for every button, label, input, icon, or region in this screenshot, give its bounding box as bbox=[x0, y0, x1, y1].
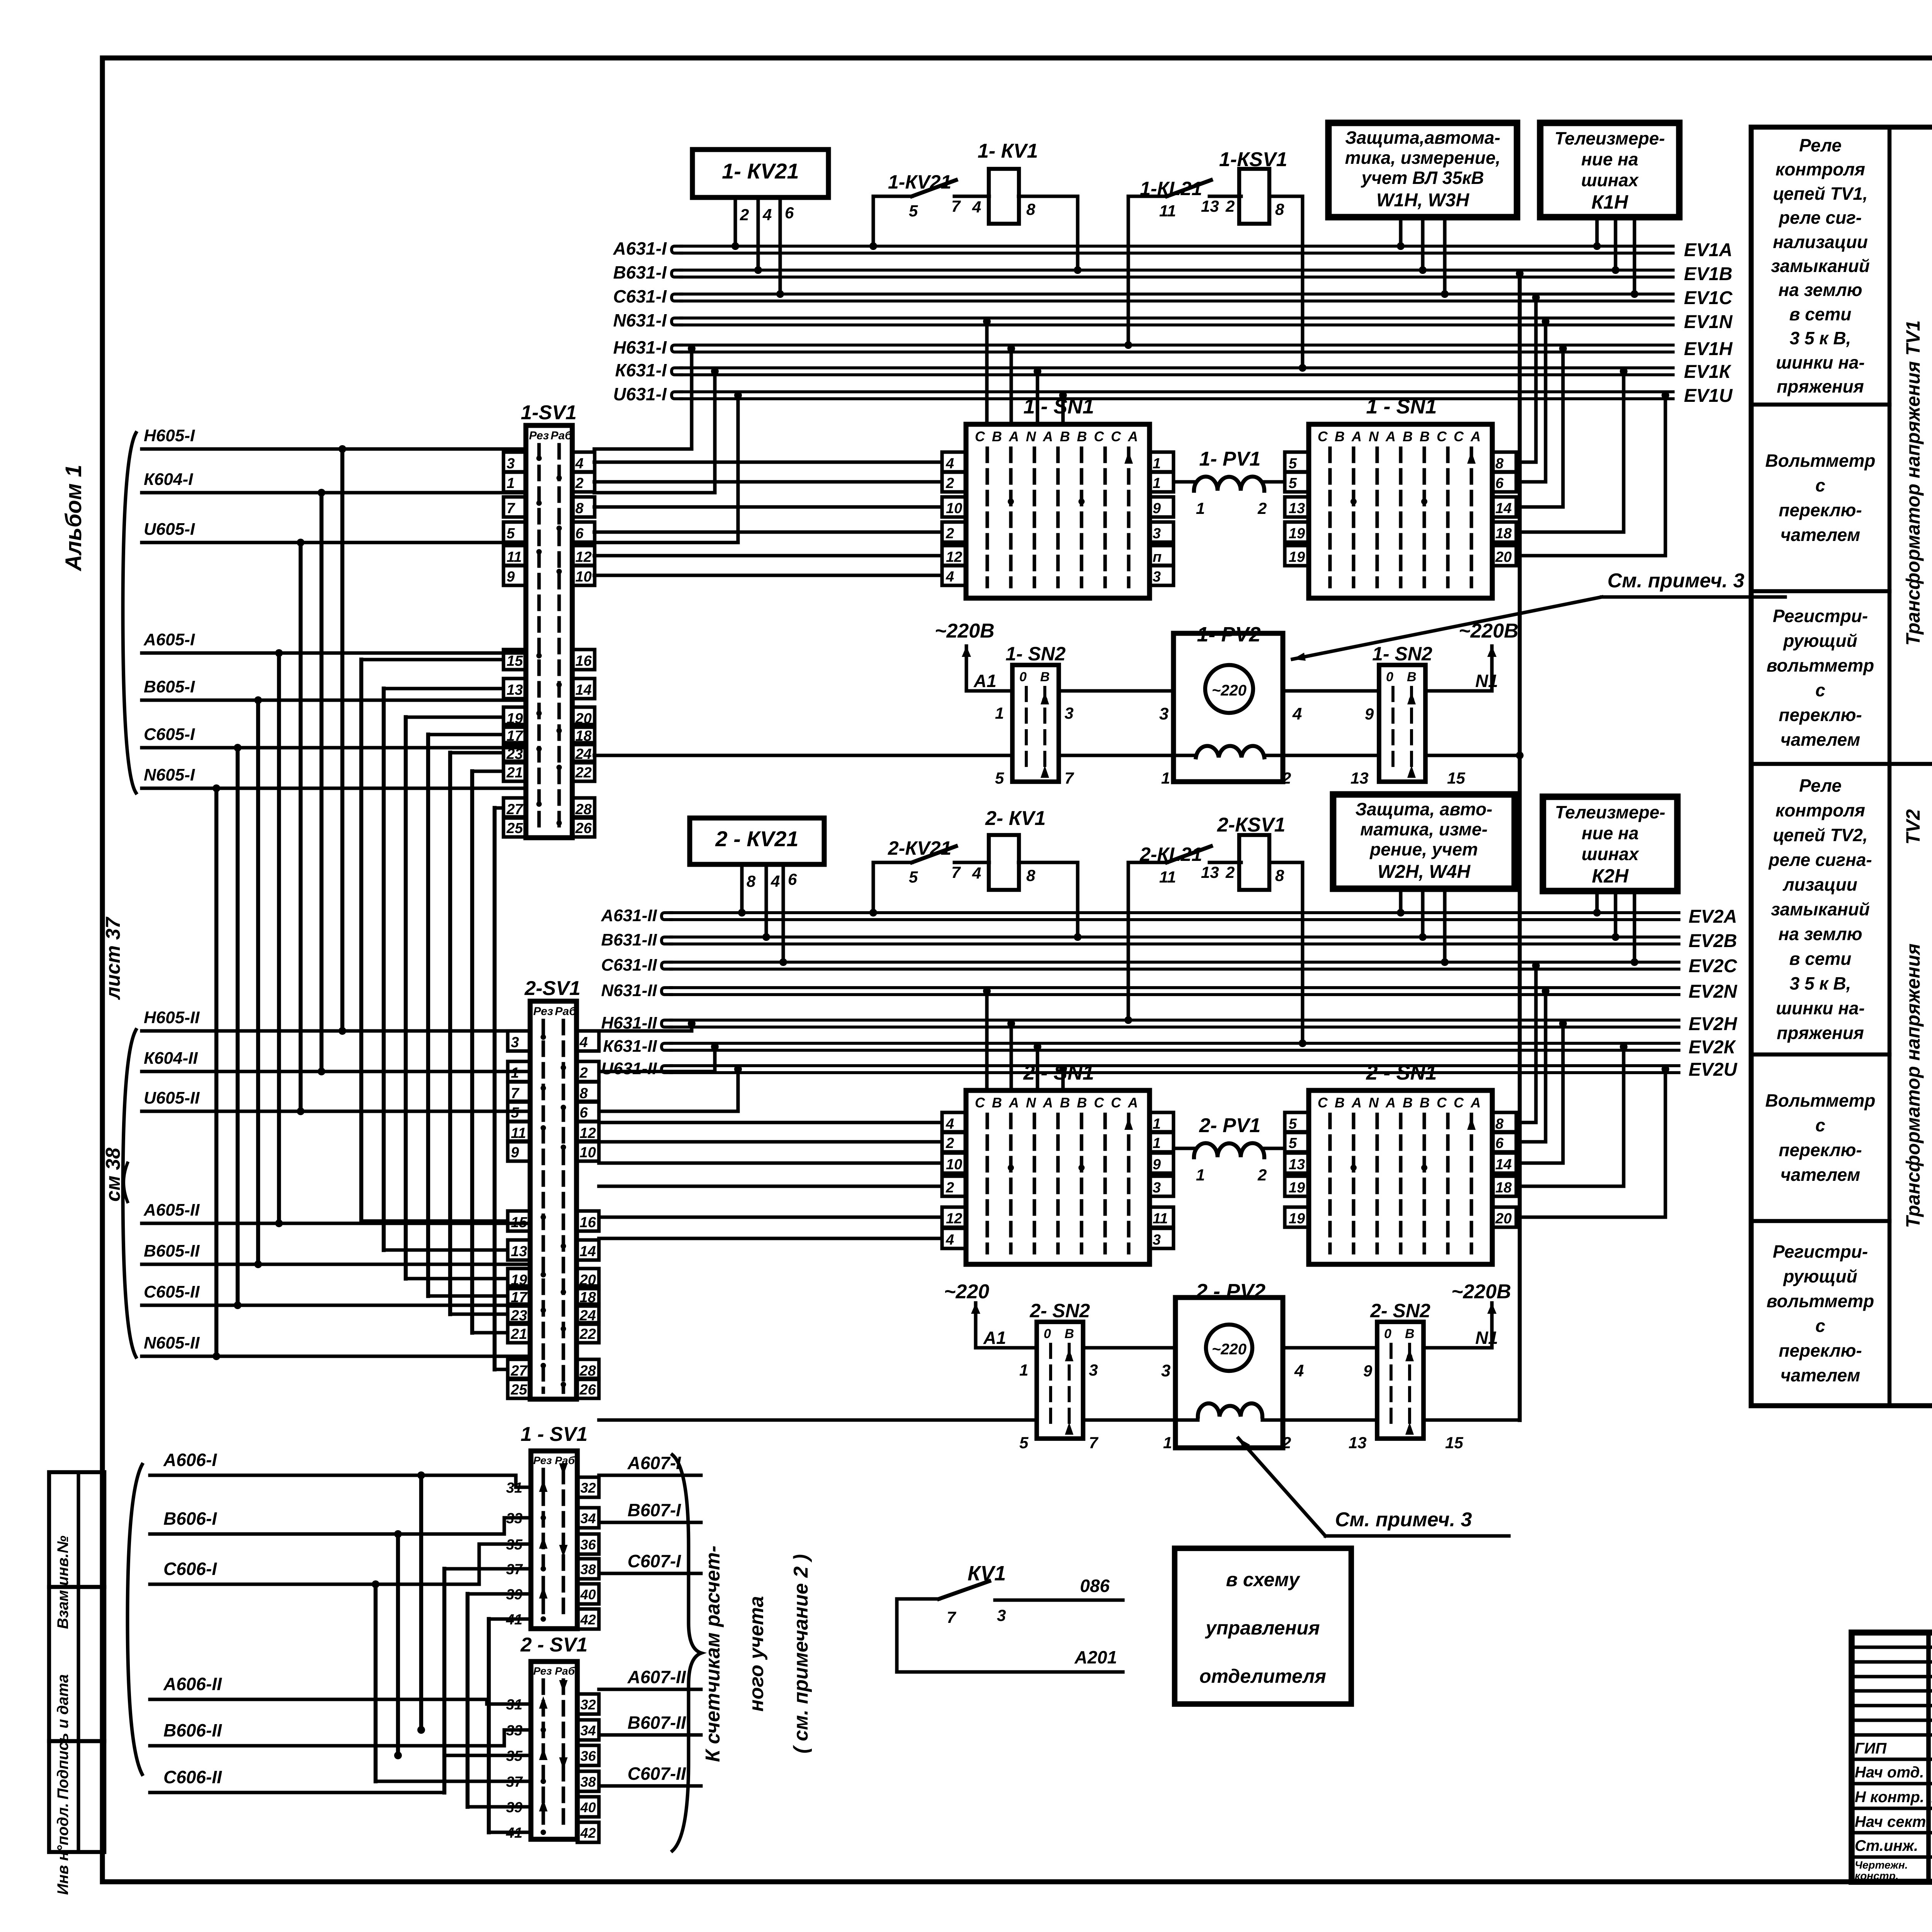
svg-text:2: 2 bbox=[946, 1135, 954, 1151]
svg-text:Трансформатор напряжения ТV: Трансформатор напряжения ТV1 bbox=[1902, 320, 1924, 646]
svg-text:1-SV1: 1-SV1 bbox=[521, 401, 577, 424]
bus С631-I bbox=[672, 294, 682, 301]
wire 1-SV1 to 1-SN1 bbox=[594, 460, 941, 464]
svg-text:ЕV2U: ЕV2U bbox=[1689, 1060, 1738, 1080]
svg-text:с: с bbox=[1815, 1316, 1825, 1336]
pin 25 of 1-SV1 bbox=[503, 817, 526, 837]
svg-text:с: с bbox=[1815, 475, 1825, 495]
svg-text:переклю-: переклю- bbox=[1779, 705, 1862, 725]
pin 27 of 1-SV1 bbox=[503, 798, 526, 818]
svg-text:Рез: Рез bbox=[529, 429, 549, 442]
svg-text:2-SV1: 2-SV1 bbox=[524, 977, 581, 1000]
svg-text:2 - SN1: 2 - SN1 bbox=[1023, 1061, 1094, 1084]
svg-text:11: 11 bbox=[1153, 1211, 1168, 1227]
svg-text:13: 13 bbox=[1201, 197, 1219, 215]
wire 2-SN1 pin 18 to bus К631-II bbox=[1516, 1050, 1624, 1186]
svg-text:Защита,автома-: Защита,автома- bbox=[1345, 128, 1500, 148]
pin 12 of 1 - SN1 bbox=[942, 546, 966, 566]
svg-text:4: 4 bbox=[946, 569, 954, 585]
svg-text:8: 8 bbox=[1495, 1116, 1504, 1132]
bus В631-I bbox=[672, 270, 682, 277]
svg-text:4: 4 bbox=[946, 1116, 954, 1132]
svg-text:6: 6 bbox=[788, 870, 797, 888]
svg-text:рующий: рующий bbox=[1782, 1266, 1857, 1286]
svg-text:на землю: на землю bbox=[1778, 924, 1862, 944]
function box Телеизмерение К2Н bbox=[1543, 797, 1677, 891]
svg-text:В606-I: В606-I bbox=[163, 1509, 217, 1529]
svg-text:вольтметр: вольтметр bbox=[1767, 655, 1874, 675]
wire riser bundle bbox=[299, 543, 303, 1111]
svg-text:3: 3 bbox=[1159, 704, 1168, 723]
pin 1 of 1-SV1 bbox=[503, 472, 526, 492]
svg-text:рение, учет: рение, учет bbox=[1369, 839, 1478, 859]
svg-text:13: 13 bbox=[1350, 769, 1369, 787]
wire riser 1 bbox=[359, 660, 363, 1221]
svg-text:N1: N1 bbox=[1475, 671, 1498, 691]
svg-text:2- SN2: 2- SN2 bbox=[1029, 1300, 1090, 1321]
svg-text:В: В bbox=[1077, 429, 1087, 444]
pin 4 of 2 - SN1 bbox=[942, 1228, 966, 1248]
pin 24 of 2-SV1 bbox=[577, 1304, 599, 1324]
svg-text:В: В bbox=[1403, 429, 1413, 444]
pin 5 of 2 - SN1 bbox=[1285, 1132, 1309, 1152]
wire bus N631-I to 1-SN1 pin 6 bbox=[1516, 325, 1546, 482]
pin 2 of 2-SV1 bbox=[577, 1061, 599, 1082]
svg-text:В: В bbox=[992, 1095, 1002, 1111]
svg-text:12: 12 bbox=[575, 549, 592, 565]
svg-text:А: А bbox=[1128, 429, 1138, 444]
svg-text:2- РV1: 2- РV1 bbox=[1199, 1114, 1261, 1137]
svg-text:переклю-: переклю- bbox=[1779, 1140, 1862, 1160]
svg-text:1- SN2: 1- SN2 bbox=[1005, 643, 1066, 665]
wire H605-I to bus Н631-I bbox=[594, 447, 692, 451]
svg-text:чателем: чателем bbox=[1781, 730, 1860, 750]
pin 27 of 2-SV1 bbox=[508, 1359, 530, 1379]
stub bbox=[1399, 217, 1402, 246]
svg-text:1-КV21: 1-КV21 bbox=[888, 171, 951, 193]
svg-text:реле сиг-: реле сиг- bbox=[1778, 207, 1862, 228]
pin 18 of 1 - SN1 bbox=[1492, 522, 1516, 542]
svg-text:13: 13 bbox=[1289, 1156, 1305, 1173]
svg-text:А605-I: А605-I bbox=[143, 630, 195, 649]
pin 13 of 1-SV1 bbox=[503, 679, 526, 699]
pin 20 of 2 - SN1 bbox=[1492, 1207, 1516, 1227]
svg-text:21: 21 bbox=[506, 765, 523, 781]
stub bbox=[1614, 217, 1617, 270]
bus Н631-II bbox=[662, 1020, 672, 1027]
svg-text:В607-II: В607-II bbox=[628, 1713, 686, 1733]
wire bbox=[966, 689, 1012, 692]
svg-text:1 - SN1: 1 - SN1 bbox=[1023, 395, 1094, 418]
pin 2 of 1-SV1 bbox=[572, 472, 595, 492]
pin 25 of 2-SV1 bbox=[508, 1378, 530, 1398]
pin 14 of 1-SV1 bbox=[572, 679, 595, 699]
wire 1-SV1 to 1-SN1 bbox=[594, 573, 941, 577]
annotation table (middle) bbox=[1751, 127, 1932, 1406]
svg-text:6: 6 bbox=[1495, 1135, 1504, 1151]
svg-text:0: 0 bbox=[1044, 1327, 1051, 1341]
svg-text:38: 38 bbox=[580, 1774, 596, 1790]
svg-text:К1Н: К1Н bbox=[1592, 191, 1629, 213]
svg-text:Взам инв.№: Взам инв.№ bbox=[54, 1536, 71, 1629]
stub bbox=[1595, 891, 1599, 913]
svg-text:N631-II: N631-II bbox=[601, 981, 657, 1000]
svg-text:в схему: в схему bbox=[1226, 1569, 1301, 1590]
svg-text:В: В bbox=[1065, 1327, 1074, 1341]
supply arrow bbox=[974, 1303, 977, 1348]
svg-text:В607-I: В607-I bbox=[628, 1500, 681, 1520]
svg-text:шинах: шинах bbox=[1582, 844, 1639, 864]
bottom wire of 1-SN2 row bbox=[594, 753, 1012, 757]
bus Н631-I bbox=[672, 345, 682, 352]
svg-text:С: С bbox=[1111, 429, 1121, 444]
pin 1 of 1 - SN1 bbox=[1150, 452, 1173, 472]
stub bbox=[1595, 217, 1599, 246]
svg-text:вольтметр: вольтметр bbox=[1767, 1291, 1874, 1311]
svg-text:10: 10 bbox=[946, 1156, 962, 1173]
svg-text:В631-I: В631-I bbox=[613, 262, 667, 282]
svg-text:Защита, авто-: Защита, авто- bbox=[1355, 799, 1493, 819]
bus U631-I bbox=[672, 392, 682, 399]
svg-text:34: 34 bbox=[580, 1723, 596, 1738]
svg-text:N1: N1 bbox=[1475, 1328, 1498, 1348]
svg-text:15: 15 bbox=[507, 653, 523, 669]
svg-text:1- КV1: 1- КV1 bbox=[978, 140, 1038, 162]
wire bbox=[1083, 1346, 1175, 1349]
wire bbox=[1019, 194, 1078, 198]
bus В631-II bbox=[662, 937, 672, 944]
svg-text:1: 1 bbox=[1153, 456, 1161, 472]
svg-text:цепей ТV1,: цепей ТV1, bbox=[1773, 184, 1867, 204]
wire bbox=[1019, 861, 1078, 864]
svg-text:2-КV21: 2-КV21 bbox=[888, 837, 951, 859]
stamp box Инв №подл bbox=[49, 1741, 104, 1852]
wire bus Н631-I to 1-SN1 pin 14 bbox=[1516, 352, 1563, 507]
wire C606-II bbox=[270, 1755, 531, 1793]
svg-text:пряжения: пряжения bbox=[1777, 1023, 1864, 1043]
svg-text:А: А bbox=[1351, 429, 1362, 444]
svg-text:1- КV21: 1- КV21 bbox=[722, 159, 799, 183]
stamp box Подпись и дата bbox=[49, 1587, 104, 1741]
svg-text:шинах: шинах bbox=[1581, 170, 1639, 190]
pin 8 stub bbox=[740, 864, 743, 913]
svg-text:см 38: см 38 bbox=[102, 1148, 124, 1202]
svg-text:~220В: ~220В bbox=[1451, 1281, 1511, 1303]
pin 4 stub bbox=[756, 197, 760, 270]
svg-text:~220: ~220 bbox=[1212, 1341, 1247, 1358]
svg-text:В: В bbox=[992, 429, 1002, 444]
cable bundle bracket 606 bbox=[128, 1464, 142, 1774]
svg-text:8: 8 bbox=[747, 872, 756, 890]
wire B606-II bbox=[270, 1730, 531, 1746]
svg-text:10: 10 bbox=[946, 500, 962, 517]
svg-text:А: А bbox=[1128, 1095, 1138, 1111]
svg-text:N: N bbox=[1026, 429, 1036, 444]
crossover riser 5 bbox=[466, 1594, 469, 1807]
svg-text:7: 7 bbox=[947, 1608, 956, 1626]
pin 11 of 2 - SN1 bbox=[1150, 1207, 1173, 1227]
sheet frame bbox=[102, 56, 1932, 61]
pin 23 of 1-SV1 bbox=[503, 743, 526, 763]
svg-text:Реле: Реле bbox=[1799, 776, 1842, 796]
pin 6 of 2-SV1 bbox=[577, 1101, 599, 1121]
pin 6 stub bbox=[778, 197, 782, 294]
pin 12 of 2-SV1 bbox=[577, 1122, 599, 1142]
pin 28 of 2-SV1 bbox=[577, 1359, 599, 1379]
svg-text:А: А bbox=[1043, 1095, 1053, 1111]
svg-text:Рез: Рез bbox=[533, 1665, 552, 1677]
svg-text:управления: управления bbox=[1204, 1617, 1320, 1639]
pin 8 of 2 - SN1 bbox=[1492, 1112, 1516, 1133]
pin 24 of 1-SV1 bbox=[572, 743, 595, 763]
pin 14 of 1 - SN1 bbox=[1492, 497, 1516, 517]
wire bus N631-II to 2-SN1 pin 6 bbox=[1516, 995, 1546, 1142]
bottom wire of 2-SN2 row bbox=[599, 1418, 1037, 1422]
svg-text:Регистри-: Регистри- bbox=[1773, 606, 1868, 626]
wire riser bundle bbox=[256, 700, 260, 1264]
svg-text:N605-II: N605-II bbox=[144, 1333, 200, 1352]
svg-text:ЕV1С: ЕV1С bbox=[1684, 288, 1733, 308]
svg-text:6: 6 bbox=[575, 526, 584, 542]
svg-text:С605-I: С605-I bbox=[144, 725, 195, 744]
svg-text:5: 5 bbox=[1289, 1116, 1297, 1132]
svg-text:С: С bbox=[975, 1095, 985, 1111]
pin 19 of 2-SV1 bbox=[508, 1269, 530, 1289]
svg-text:В: В bbox=[1407, 670, 1417, 684]
stub bbox=[1421, 217, 1424, 270]
svg-text:С606-I: С606-I bbox=[163, 1559, 217, 1579]
svg-text:См. примеч. 3: См. примеч. 3 bbox=[1607, 570, 1745, 592]
pin 2 stub bbox=[733, 197, 737, 246]
wire bus С631-II to 2-SN1 pin 8 bbox=[1516, 969, 1536, 1122]
svg-text:3: 3 bbox=[1161, 1361, 1170, 1380]
svg-text:4: 4 bbox=[946, 456, 954, 472]
svg-text:Телеизмере-: Телеизмере- bbox=[1554, 128, 1665, 148]
wire riser bundle bbox=[340, 449, 344, 1031]
svg-text:К2Н: К2Н bbox=[1592, 865, 1629, 887]
pin 4 stub bbox=[764, 864, 768, 937]
svg-text:ЕV2С: ЕV2С bbox=[1689, 956, 1738, 976]
pin 13 of 1 - SN1 bbox=[1285, 497, 1309, 517]
svg-text:( см. примечание 2 ): ( см. примечание 2 ) bbox=[790, 1554, 812, 1753]
svg-text:С: С bbox=[1111, 1095, 1121, 1111]
svg-text:С: С bbox=[1437, 1095, 1447, 1111]
svg-text:1: 1 bbox=[1153, 1135, 1161, 1151]
pin 23 of 2-SV1 bbox=[508, 1304, 530, 1324]
svg-text:38: 38 bbox=[580, 1561, 596, 1577]
svg-text:Н605-I: Н605-I bbox=[144, 426, 195, 445]
svg-text:Н631-I: Н631-I bbox=[613, 337, 667, 357]
svg-text:учет ВЛ 35кВ: учет ВЛ 35кВ bbox=[1361, 168, 1484, 188]
pin 17 of 1-SV1 bbox=[503, 724, 526, 745]
title block bbox=[1852, 1633, 1932, 1882]
svg-text:А607-II: А607-II bbox=[627, 1667, 686, 1687]
svg-text:2 - SV1: 2 - SV1 bbox=[520, 1634, 587, 1656]
svg-text:ЕV1А: ЕV1А bbox=[1684, 240, 1732, 260]
stub bbox=[1633, 217, 1636, 294]
svg-text:32: 32 bbox=[580, 1480, 596, 1496]
svg-text:4: 4 bbox=[1294, 1361, 1304, 1380]
svg-text:11: 11 bbox=[511, 1125, 526, 1141]
svg-text:А606-I: А606-I bbox=[163, 1450, 217, 1470]
svg-text:В: В bbox=[1060, 1095, 1070, 1111]
svg-text:С: С bbox=[1437, 429, 1447, 444]
svg-text:9: 9 bbox=[1365, 705, 1374, 723]
svg-text:ЕV1К: ЕV1К bbox=[1684, 362, 1732, 382]
wire 1-SV1 to 1-SN1 bbox=[594, 530, 941, 534]
bus А631-II bbox=[662, 913, 672, 920]
wire bbox=[1059, 689, 1173, 692]
svg-text:В: В bbox=[1420, 429, 1430, 444]
svg-text:Регистри-: Регистри- bbox=[1773, 1242, 1868, 1262]
svg-text:1- SN2: 1- SN2 bbox=[1372, 643, 1432, 665]
function box Защита автоматика W1H W3H bbox=[1328, 123, 1517, 217]
svg-text:ТV2: ТV2 bbox=[1902, 809, 1924, 845]
svg-text:С: С bbox=[1094, 429, 1104, 444]
svg-text:ЕV1N: ЕV1N bbox=[1684, 312, 1733, 332]
svg-text:26: 26 bbox=[575, 820, 592, 837]
svg-text:ЕV2К: ЕV2К bbox=[1689, 1037, 1736, 1058]
svg-text:14: 14 bbox=[580, 1243, 596, 1260]
pin 19 of 2 - SN1 bbox=[1285, 1176, 1309, 1196]
pin 16 of 2-SV1 bbox=[577, 1211, 599, 1231]
svg-text:2- КV1: 2- КV1 bbox=[985, 807, 1046, 830]
wire riser bundle bbox=[236, 748, 240, 1305]
svg-text:14: 14 bbox=[575, 682, 592, 698]
svg-text:Альбом 1: Альбом 1 bbox=[61, 464, 86, 571]
pin 4 of 2 - SN1 bbox=[942, 1112, 966, 1133]
svg-text:N: N bbox=[1026, 1095, 1036, 1111]
svg-text:В605-I: В605-I bbox=[144, 677, 195, 696]
svg-text:12: 12 bbox=[946, 1211, 962, 1227]
function box Телеизмерение К1Н bbox=[1540, 123, 1679, 217]
svg-text:чателем: чателем bbox=[1781, 1365, 1860, 1385]
pin 6 stub bbox=[781, 864, 785, 962]
svg-text:5: 5 bbox=[1289, 475, 1297, 492]
svg-text:7: 7 bbox=[1089, 1434, 1099, 1452]
svg-text:Н605-II: Н605-II bbox=[144, 1008, 200, 1027]
pin 14 of 2 - SN1 bbox=[1492, 1153, 1516, 1173]
wire riser 3 bbox=[404, 717, 408, 1279]
svg-text:А1: А1 bbox=[983, 1328, 1006, 1348]
svg-text:Подпись и дата: Подпись и дата bbox=[54, 1674, 71, 1799]
svg-text:К631-II: К631-II bbox=[603, 1037, 657, 1056]
svg-text:3: 3 bbox=[511, 1034, 519, 1051]
svg-text:нализации: нализации bbox=[1773, 232, 1868, 252]
pin 2 of 2 - SN1 bbox=[942, 1176, 966, 1196]
svg-text:Рез: Рез bbox=[533, 1454, 552, 1466]
crossover riser 3 bbox=[374, 1584, 378, 1781]
svg-text:42: 42 bbox=[580, 1825, 596, 1841]
wire bbox=[897, 1670, 1123, 1673]
svg-text:1: 1 bbox=[1196, 1166, 1205, 1184]
pin 18 of 2 - SN1 bbox=[1492, 1176, 1516, 1196]
pin 13 of 2-SV1 bbox=[508, 1240, 530, 1260]
svg-text:6: 6 bbox=[1495, 475, 1504, 492]
svg-text:Раб: Раб bbox=[555, 1005, 577, 1018]
svg-text:К604-I: К604-I bbox=[144, 470, 193, 489]
svg-text:В: В bbox=[1077, 1095, 1087, 1111]
svg-text:8: 8 bbox=[1026, 866, 1036, 884]
svg-text:U605-I: U605-I bbox=[144, 520, 195, 539]
svg-text:А: А bbox=[1470, 1095, 1481, 1111]
wire 1-SV1 to 1-SN1 bbox=[594, 554, 941, 557]
svg-text:40: 40 bbox=[580, 1799, 596, 1815]
svg-text:32: 32 bbox=[580, 1697, 596, 1713]
svg-text:констр.: констр. bbox=[1855, 1870, 1899, 1882]
svg-text:~220: ~220 bbox=[1212, 682, 1247, 699]
svg-text:0: 0 bbox=[1386, 670, 1393, 684]
svg-text:4: 4 bbox=[972, 864, 981, 882]
bus К631-I bbox=[672, 368, 682, 375]
wire A606-I to 1-SV1 pin 31 bbox=[270, 1473, 516, 1477]
pin 14 of 2-SV1 bbox=[577, 1240, 599, 1260]
svg-text:19: 19 bbox=[1289, 1211, 1305, 1227]
pin 9 of 1 - SN1 bbox=[1150, 497, 1173, 517]
svg-text:В631-II: В631-II bbox=[601, 930, 657, 949]
svg-text:10: 10 bbox=[580, 1145, 596, 1161]
wire B606-I riser bbox=[394, 1530, 402, 1538]
svg-text:ЕV1Н: ЕV1Н bbox=[1684, 339, 1733, 359]
svg-text:9: 9 bbox=[511, 1145, 519, 1161]
wire bbox=[1423, 1346, 1492, 1349]
svg-text:15: 15 bbox=[1445, 1434, 1463, 1452]
svg-text:40: 40 bbox=[580, 1587, 596, 1602]
pin 6 of 2 - SN1 bbox=[1492, 1132, 1516, 1152]
pin 20 of 2-SV1 bbox=[577, 1269, 599, 1289]
bus С631-II bbox=[662, 962, 672, 969]
svg-text:36: 36 bbox=[580, 1748, 596, 1764]
pin 13 of 2 - SN1 bbox=[1285, 1153, 1309, 1173]
svg-text:ние на: ние на bbox=[1582, 823, 1639, 843]
bus N631-I bbox=[672, 318, 682, 325]
bundle continuation mark bbox=[124, 1163, 128, 1202]
pin 22 of 1-SV1 bbox=[572, 761, 595, 781]
svg-text:чателем: чателем bbox=[1781, 1165, 1860, 1185]
svg-text:А: А bbox=[1351, 1095, 1362, 1111]
svg-text:Раб: Раб bbox=[555, 1665, 575, 1677]
svg-text:лист 37: лист 37 bbox=[102, 917, 124, 1000]
svg-text:4: 4 bbox=[575, 456, 583, 472]
wires bus taps into 2-SN1 top bbox=[985, 995, 988, 1090]
svg-text:2: 2 bbox=[1257, 1166, 1267, 1184]
pin 10 of 2-SV1 bbox=[577, 1141, 599, 1161]
svg-text:С606-II: С606-II bbox=[163, 1767, 222, 1787]
svg-text:1 - SN1: 1 - SN1 bbox=[1366, 395, 1437, 418]
pin 15 of 1-SV1 bbox=[503, 650, 526, 670]
pin 1 of 2-SV1 bbox=[508, 1061, 530, 1082]
stub bbox=[1443, 889, 1446, 962]
svg-text:2: 2 bbox=[946, 526, 954, 542]
supply arrow bbox=[1490, 1303, 1493, 1348]
svg-text:12: 12 bbox=[580, 1125, 596, 1141]
svg-text:4: 4 bbox=[1292, 704, 1302, 723]
svg-text:34: 34 bbox=[580, 1510, 596, 1526]
svg-text:2: 2 bbox=[1225, 863, 1235, 881]
svg-text:N631-I: N631-I bbox=[613, 310, 667, 330]
svg-text:19: 19 bbox=[1289, 526, 1305, 542]
wire A606-II bbox=[270, 1699, 531, 1704]
wire bbox=[976, 1346, 1037, 1349]
svg-text:Ст.инж.: Ст.инж. bbox=[1855, 1837, 1918, 1854]
svg-text:Вольтметр: Вольтметр bbox=[1765, 451, 1875, 471]
svg-text:А605-II: А605-II bbox=[143, 1201, 200, 1219]
bus N631-II bbox=[662, 988, 672, 995]
svg-text:22: 22 bbox=[579, 1326, 596, 1342]
svg-text:А631-I: А631-I bbox=[613, 238, 667, 259]
svg-text:ЕV2N: ЕV2N bbox=[1689, 981, 1738, 1002]
wire riser bundle bbox=[214, 788, 218, 1356]
